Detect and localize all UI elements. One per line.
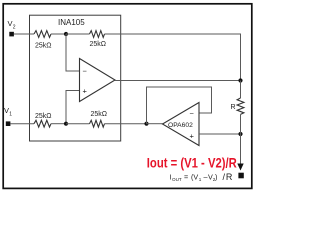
wire right rail into resistor R bbox=[240, 81, 242, 99]
wire R2 to right rail bbox=[105, 34, 241, 81]
svg-text:–: – bbox=[204, 173, 208, 182]
wire op-amp output to right rail bbox=[115, 80, 241, 82]
svg-text:(V: (V bbox=[191, 173, 198, 182]
svg-text:/R: /R bbox=[223, 172, 234, 182]
node A junction dot bbox=[64, 32, 68, 36]
wire V2 to R1 bbox=[14, 33, 34, 35]
wire node A to R2 bbox=[66, 33, 90, 35]
svg-text:=: = bbox=[184, 173, 188, 182]
svg-text:+: + bbox=[190, 132, 195, 141]
wire + input to right rail bbox=[199, 133, 241, 135]
svg-text:25kΩ: 25kΩ bbox=[35, 43, 52, 50]
svg-text:OPA602: OPA602 bbox=[168, 122, 193, 129]
svg-text:Iout = (V1 - V2)/R: Iout = (V1 - V2)/R bbox=[147, 154, 237, 170]
wire resistor R to node D bbox=[240, 114, 242, 134]
resistor R2 25k (top-right) bbox=[90, 31, 105, 38]
svg-text:1: 1 bbox=[9, 111, 12, 117]
svg-text:OUT: OUT bbox=[172, 177, 182, 182]
svg-text:): ) bbox=[215, 173, 217, 182]
svg-text:25kΩ: 25kΩ bbox=[90, 41, 107, 48]
node output junction dot bbox=[238, 78, 242, 82]
svg-text:V: V bbox=[8, 19, 13, 28]
node load terminal square bbox=[238, 173, 243, 179]
wire node C to U2 output bbox=[147, 123, 163, 125]
op-amp U1 box INA105 bbox=[30, 15, 121, 141]
wire R1 to node A bbox=[51, 33, 66, 35]
svg-text:V: V bbox=[4, 106, 9, 115]
node V2 terminal square bbox=[9, 32, 14, 37]
wire node B up to non-inverting input bbox=[66, 91, 80, 124]
wire node B to R4 bbox=[66, 123, 90, 125]
node V1 terminal square bbox=[6, 121, 11, 126]
svg-text:2: 2 bbox=[13, 24, 16, 30]
svg-text:25kΩ: 25kΩ bbox=[91, 111, 108, 118]
op-amp A1 (inside INA105) bbox=[80, 59, 116, 102]
svg-text:R: R bbox=[231, 104, 236, 111]
svg-text:+: + bbox=[83, 87, 88, 96]
wire feedback loop U2 bbox=[147, 87, 212, 124]
node B junction dot bbox=[64, 122, 68, 126]
node C junction dot bbox=[144, 122, 148, 126]
resistor R1 25k (top-left) bbox=[34, 31, 51, 38]
svg-text:1: 1 bbox=[199, 177, 202, 182]
resistor R (vertical) bbox=[237, 98, 244, 114]
wire V1 to R3 bbox=[10, 123, 34, 125]
node D junction dot bbox=[238, 132, 242, 136]
svg-text:25kΩ: 25kΩ bbox=[35, 113, 52, 120]
wire node A down to inverting input bbox=[66, 34, 80, 71]
wire R3 to node B bbox=[51, 123, 66, 125]
svg-text:−: − bbox=[83, 67, 88, 76]
current direction arrowhead bbox=[237, 164, 243, 171]
resistor R3 25k (bottom-left) bbox=[34, 120, 51, 127]
svg-text:INA105: INA105 bbox=[58, 18, 85, 27]
wire R4 to node C bbox=[105, 123, 147, 125]
svg-text:−: − bbox=[190, 109, 195, 118]
border frame bbox=[3, 4, 252, 189]
resistor R4 25k (bottom-right) bbox=[90, 120, 105, 127]
op-amp U2 OPA602 bbox=[163, 103, 200, 146]
wire current arrow line bbox=[240, 134, 242, 164]
